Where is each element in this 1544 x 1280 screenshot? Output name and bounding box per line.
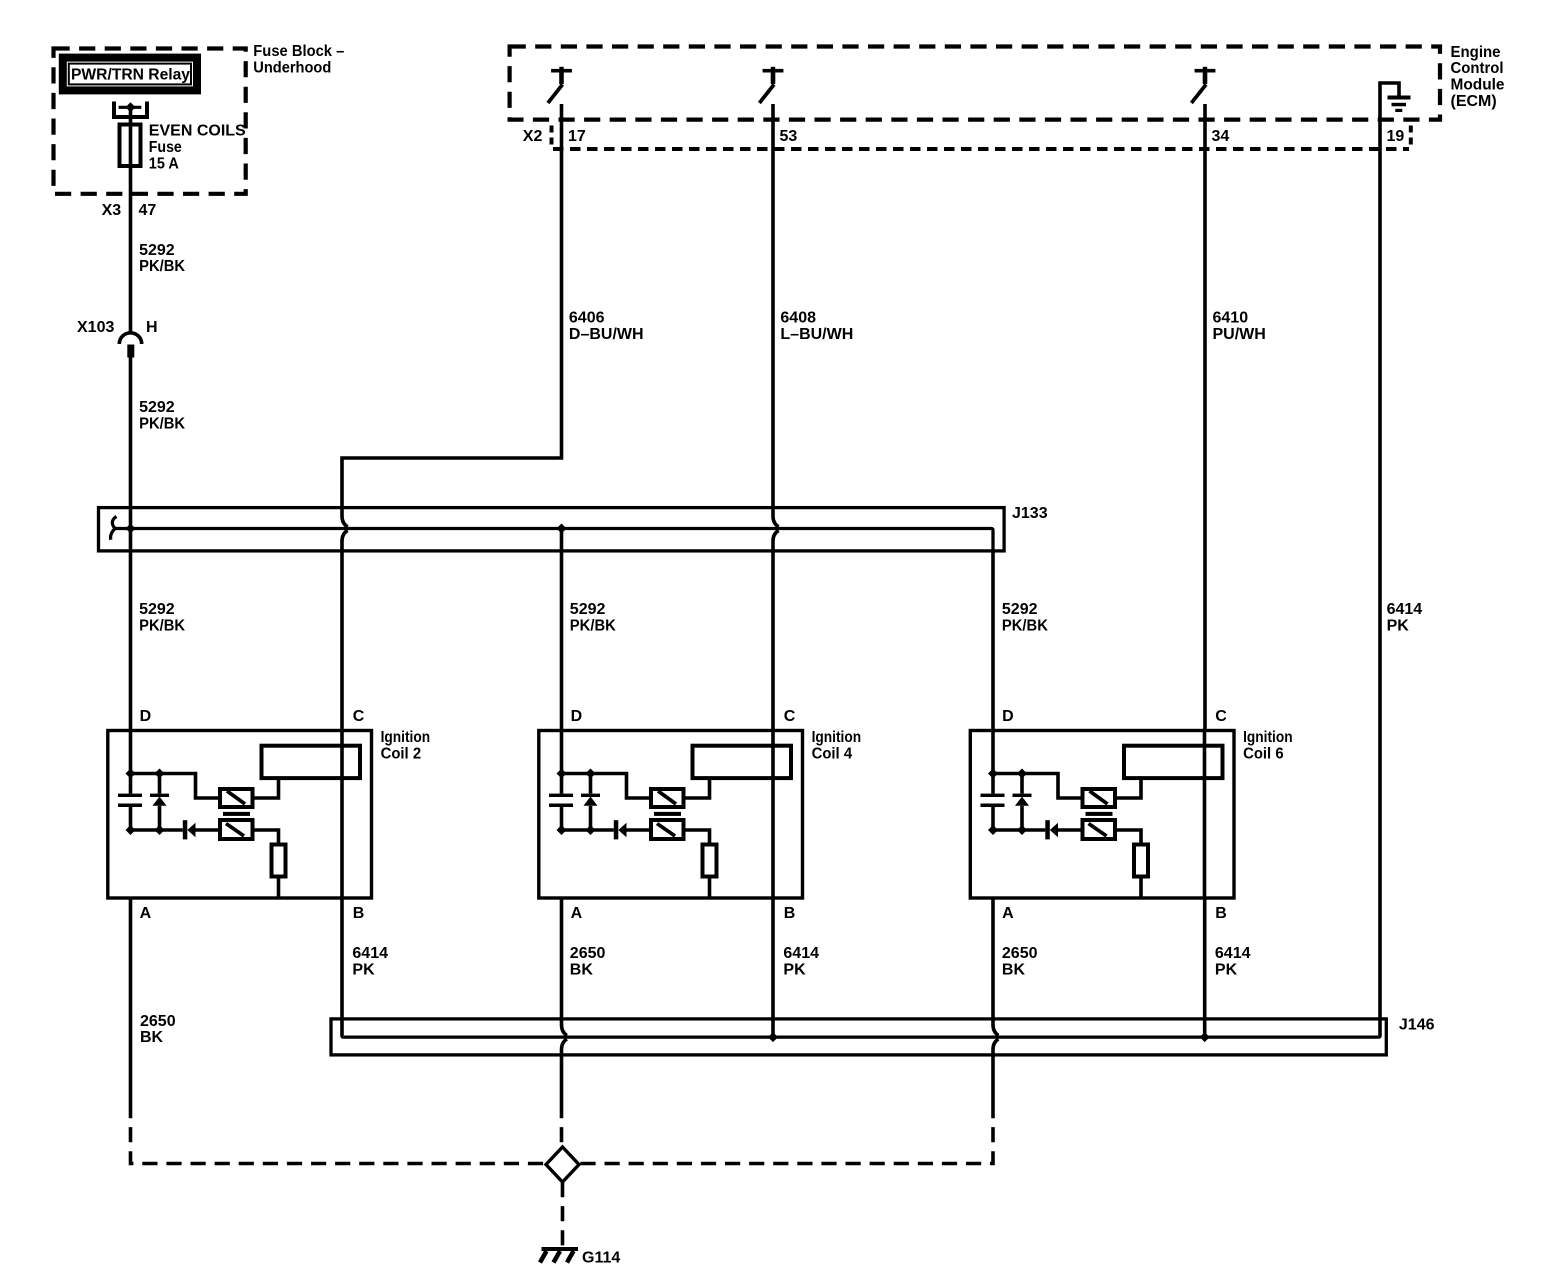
connector X3 pin 47 labels (102, 202, 157, 219)
svg-text:D: D (140, 708, 152, 725)
svg-text:BK: BK (570, 961, 594, 978)
J133 bus wire (113, 529, 993, 551)
label: 6408 L-BU/WH (780, 310, 853, 343)
svg-text:Coil 2: Coil 2 (381, 745, 422, 762)
svg-text:Ignition: Ignition (1243, 729, 1293, 746)
label: Ignition Coil 6 (1243, 729, 1293, 763)
coil 2 junction dots top rail (126, 769, 165, 779)
coil 4 diode (614, 820, 651, 839)
coil 4 secondary winding to resistor wire (684, 830, 710, 845)
svg-text:Underhood: Underhood (253, 59, 331, 76)
ignition coil 4 box (539, 731, 803, 899)
svg-text:C: C (1215, 708, 1227, 725)
svg-text:6408: 6408 (780, 310, 816, 327)
coil 2 primary winding to module wire (253, 778, 279, 798)
junction dot J146 / coil 4 pin B (768, 1032, 778, 1042)
svg-text:(ECM): (ECM) (1451, 93, 1497, 110)
svg-text:A: A (1002, 905, 1014, 922)
wire 6406 below J133 to ignition coil 2 pin C (342, 530, 348, 730)
svg-text:17: 17 (568, 128, 586, 145)
connector X2 dotted line (553, 147, 1409, 151)
svg-text:Control: Control (1451, 60, 1504, 77)
svg-text:BK: BK (1002, 961, 1026, 978)
label: 5292 PK/BK (coil 2 feed) (139, 601, 185, 634)
wire 2650 BK ignition coil 2 pin A down (129, 898, 133, 1103)
svg-text:Module: Module (1451, 77, 1505, 94)
coil 6 junction dots top rail (988, 769, 1027, 779)
label: pin 34 (1212, 128, 1230, 145)
label: coil 6 pin letters D C A B (1002, 708, 1227, 922)
junction dot J146 / coil 6 pin B (1200, 1032, 1210, 1042)
svg-text:53: 53 (780, 128, 798, 145)
junction dot J133 / coil 4 feed (557, 524, 567, 534)
label: 6410 PU/WH (1213, 310, 1266, 343)
svg-text:J133: J133 (1012, 505, 1048, 522)
coil 4 resistor (703, 845, 717, 877)
svg-text:PK/BK: PK/BK (139, 258, 185, 275)
svg-text:B: B (353, 905, 365, 922)
label: coil 4 pin letters D C A B (571, 708, 796, 922)
connector X2 separator dashes (550, 126, 1413, 145)
coil 4 control module rectangle (693, 746, 792, 778)
label: G114 (582, 1250, 620, 1267)
label: J133 (1012, 505, 1048, 522)
wire 6408 below J133 to ignition coil 4 pin C (773, 530, 779, 730)
coil 6 diode (1045, 820, 1082, 839)
svg-text:6406: 6406 (569, 310, 605, 327)
label: pin 19 (1387, 128, 1405, 145)
label: connector X2 (523, 128, 543, 145)
svg-text:PK: PK (1215, 961, 1238, 978)
svg-text:B: B (784, 905, 796, 922)
coil 6 junction dots bottom rail (988, 825, 1027, 835)
coil 6 internal top rail wire (993, 774, 1083, 799)
coil 2 secondary winding to resistor wire (253, 830, 279, 845)
label: 6414 PK (coil 4) (783, 945, 819, 978)
ECM driver for pin 17 (548, 67, 572, 103)
svg-text:D: D (1002, 708, 1014, 725)
wire 5292 PK/BK from fuse block to X103 (129, 196, 133, 333)
coil 4 capacitor (549, 794, 573, 807)
fuse EVEN COILS 15 A (120, 125, 141, 167)
coil 6 primary winding to module wire (1115, 778, 1141, 798)
svg-text:5292: 5292 (570, 601, 606, 618)
coil 6 control module rectangle (1124, 746, 1223, 778)
label: 6406 D-BU/WH (569, 310, 644, 343)
coil 4 secondary winding (651, 820, 684, 839)
svg-text:19: 19 (1387, 128, 1405, 145)
coil 4 pin D internal wire (560, 731, 564, 794)
coil 2 capacitor (118, 794, 142, 807)
svg-text:PK/BK: PK/BK (139, 617, 185, 634)
label: 5292 PK/BK (coil 4 feed) (570, 601, 616, 634)
svg-text:2650: 2650 (1002, 945, 1038, 962)
splice diamond (546, 1147, 579, 1182)
coil 6 pin C to pin B internal wire (1203, 731, 1207, 899)
label: pin 53 (780, 128, 798, 145)
coil 6 secondary winding (1083, 820, 1116, 839)
dashed wire coil 2 ground lead to splice diamond (131, 1103, 547, 1164)
svg-text:X3: X3 (102, 202, 122, 219)
svg-text:A: A (571, 905, 583, 922)
coil 2 internal bottom rail wire (131, 828, 183, 832)
dashed wire splice diamond to ground G114 (561, 1182, 565, 1246)
wire 6406 D-BU/WH from ECM pin 17 (342, 104, 562, 527)
wire 6408 L-BU/WH from ECM pin 53 (773, 104, 779, 527)
label: 6414 PK (coil 2) (352, 945, 388, 978)
label: 2650 BK (coil 2) (140, 1013, 176, 1046)
svg-text:Engine: Engine (1451, 44, 1501, 61)
coil 6 resistor (1134, 845, 1148, 877)
label: pin 17 (568, 128, 586, 145)
splice pack J133 box (99, 508, 1005, 551)
svg-text:Fuse: Fuse (149, 139, 182, 156)
svg-text:PK: PK (1387, 617, 1410, 634)
svg-text:PU/WH: PU/WH (1213, 326, 1266, 343)
svg-text:D: D (571, 708, 583, 725)
label: Fuse Block - Underhood (253, 43, 344, 76)
label: 5292 PK/BK (lower) (139, 399, 185, 432)
relay PWR/TRN Relay (59, 54, 201, 95)
svg-text:6414: 6414 (1387, 601, 1423, 618)
svg-text:C: C (784, 708, 796, 725)
coil 2 internal top rail wire (131, 774, 221, 799)
coil 4 internal bottom rail wire (562, 828, 614, 832)
svg-text:Ignition: Ignition (381, 729, 431, 746)
svg-text:BK: BK (140, 1029, 164, 1046)
svg-text:Coil 4: Coil 4 (812, 745, 853, 762)
coil 2 control module rectangle (262, 746, 361, 778)
svg-text:X2: X2 (523, 128, 543, 145)
wire 5292 PK/BK J133 to ignition coil 2 pin D (129, 529, 133, 731)
Engine Control Module (ECM) dashed box (510, 47, 1440, 120)
label: Ignition Coil 4 (812, 729, 862, 763)
ECM driver for pin 53 (759, 67, 783, 103)
wire 5292 PK/BK J133 to ignition coil 6 pin D (991, 551, 995, 731)
coil 2 pin D internal wire (129, 731, 133, 794)
svg-text:5292: 5292 (139, 242, 175, 259)
coil 2 resistor to case wire (277, 877, 281, 899)
svg-text:5292: 5292 (139, 399, 175, 416)
wire 6414 PK ignition coil 6 pin B to J146 (1203, 898, 1207, 1037)
coil 2 primary winding (220, 789, 253, 807)
coil 6 pin D internal wire (991, 731, 995, 794)
label: 5292 PK/BK (coil 6 feed) (1002, 601, 1048, 634)
J146 bus wire (344, 1035, 1378, 1038)
wire 6410 PU/WH from ECM pin 34 to ignition coil 6 pin C (1203, 104, 1207, 731)
svg-text:D–BU/WH: D–BU/WH (569, 326, 644, 343)
dashed wire coil 6 ground lead to splice diamond (579, 1103, 993, 1164)
coil 6 primary winding (1083, 789, 1116, 807)
coil 4 internal top rail wire (562, 774, 652, 799)
wire 6414 PK ignition coil 2 pin B to J146 bus (342, 898, 344, 1037)
ignition coil 2 box (108, 731, 372, 899)
coil 6 capacitor (981, 794, 1005, 807)
coil 4 junction dots bottom rail (557, 825, 596, 835)
ground G114 symbol (540, 1247, 578, 1263)
coil 4 primary winding (651, 789, 684, 807)
label: 6414 PK (coil 6) (1215, 945, 1251, 978)
coil 2 secondary winding (220, 820, 253, 839)
svg-text:47: 47 (139, 202, 157, 219)
svg-text:EVEN COILS: EVEN COILS (149, 123, 246, 140)
dashed wire coil 4 ground lead to splice diamond (560, 1103, 564, 1147)
svg-text:6414: 6414 (1215, 945, 1251, 962)
svg-text:34: 34 (1212, 128, 1230, 145)
label: 2650 BK (coil 6) (1002, 945, 1038, 978)
svg-text:Fuse Block –: Fuse Block – (253, 43, 344, 60)
label: Ignition Coil 2 (381, 729, 431, 763)
relay output terminal bracket (114, 102, 147, 118)
svg-text:PK/BK: PK/BK (570, 617, 616, 634)
label: J146 (1399, 1016, 1435, 1033)
svg-text:H: H (146, 319, 158, 336)
svg-text:J146: J146 (1399, 1016, 1435, 1033)
svg-text:2650: 2650 (570, 945, 606, 962)
svg-text:Coil 6: Coil 6 (1243, 745, 1284, 762)
svg-text:PK: PK (783, 961, 806, 978)
coil 4 zener diode (581, 776, 600, 831)
label: 5292 PK/BK (upper) (139, 242, 185, 275)
ECM internal ground symbol at pin 19 (1380, 83, 1411, 112)
svg-text:5292: 5292 (1002, 601, 1038, 618)
coil 4 capacitor lower lead (560, 807, 564, 830)
label: 6414 PK (right) (1387, 601, 1423, 634)
splice pack J146 box (331, 1019, 1386, 1055)
fuse block - underhood dashed box (54, 49, 246, 194)
svg-text:6414: 6414 (783, 945, 819, 962)
wire 5292 PK/BK J133 to ignition coil 4 pin D (560, 529, 564, 731)
ignition coil 6 box (970, 731, 1234, 899)
wire through fuse to box edge (129, 125, 133, 197)
wire 6414 PK from ECM pin 19 ground to splice pack J146 (1378, 104, 1380, 1037)
coil 6 secondary winding to resistor wire (1115, 830, 1141, 845)
coil 6 zener diode (1013, 776, 1032, 831)
label: EVEN COILS Fuse 15 A (149, 123, 246, 173)
wire 5292 PK/BK from X103 to splice J133 (129, 358, 133, 529)
connector X103 terminal H (119, 333, 141, 358)
coil 2 zener diode (150, 776, 169, 831)
svg-text:Ignition: Ignition (812, 729, 862, 746)
label: coil 2 pin letters D C A B (140, 708, 365, 922)
svg-text:G114: G114 (582, 1250, 620, 1267)
coil 6 internal bottom rail wire (993, 828, 1045, 832)
coil 2 capacitor lower lead (129, 807, 133, 830)
svg-text:X103: X103 (77, 319, 114, 336)
coil 4 primary winding to module wire (684, 778, 710, 798)
J133 bus pigtail end (111, 517, 117, 540)
wire relay to fuse (129, 107, 133, 124)
coil 6 core bar (1086, 812, 1113, 816)
coil 4 junction dots top rail (557, 769, 596, 779)
svg-text:5292: 5292 (139, 601, 175, 618)
label: X103 H (77, 319, 158, 336)
coil 4 core bar (654, 812, 681, 816)
wire 2650 BK ignition coil 4 pin A down crossing J146 (562, 898, 567, 1103)
wire 6414 PK ignition coil 4 pin B to J146 (771, 898, 775, 1037)
coil 2 junction dots bottom rail (126, 825, 165, 835)
svg-text:C: C (353, 708, 365, 725)
svg-text:6414: 6414 (352, 945, 388, 962)
svg-text:PK/BK: PK/BK (1002, 617, 1048, 634)
svg-text:PK: PK (352, 961, 375, 978)
coil 6 resistor to case wire (1139, 877, 1143, 899)
coil 6 capacitor lower lead (991, 807, 995, 830)
coil 2 core bar (223, 812, 250, 816)
svg-text:A: A (140, 905, 152, 922)
coil 2 diode (183, 820, 220, 839)
wire 2650 BK ignition coil 6 pin A down crossing J146 (993, 898, 998, 1103)
coil 2 pin C to pin B internal wire (340, 731, 344, 899)
svg-text:B: B (1215, 905, 1227, 922)
junction dot J133 / wire 5292 feed (126, 524, 136, 534)
label: 2650 BK (coil 4) (570, 945, 606, 978)
svg-text:6410: 6410 (1213, 310, 1249, 327)
coil 4 pin C to pin B internal wire (771, 731, 775, 899)
svg-text:L–BU/WH: L–BU/WH (780, 326, 853, 343)
ECM driver for pin 34 (1191, 67, 1215, 103)
svg-text:PK/BK: PK/BK (139, 415, 185, 432)
svg-text:2650: 2650 (140, 1013, 176, 1030)
svg-text:15 A: 15 A (149, 155, 179, 172)
svg-text:PWR/TRN Relay: PWR/TRN Relay (71, 67, 190, 84)
label: Engine Control Module (ECM) (1451, 44, 1505, 110)
coil 2 resistor (272, 845, 286, 877)
coil 4 resistor to case wire (708, 877, 712, 899)
